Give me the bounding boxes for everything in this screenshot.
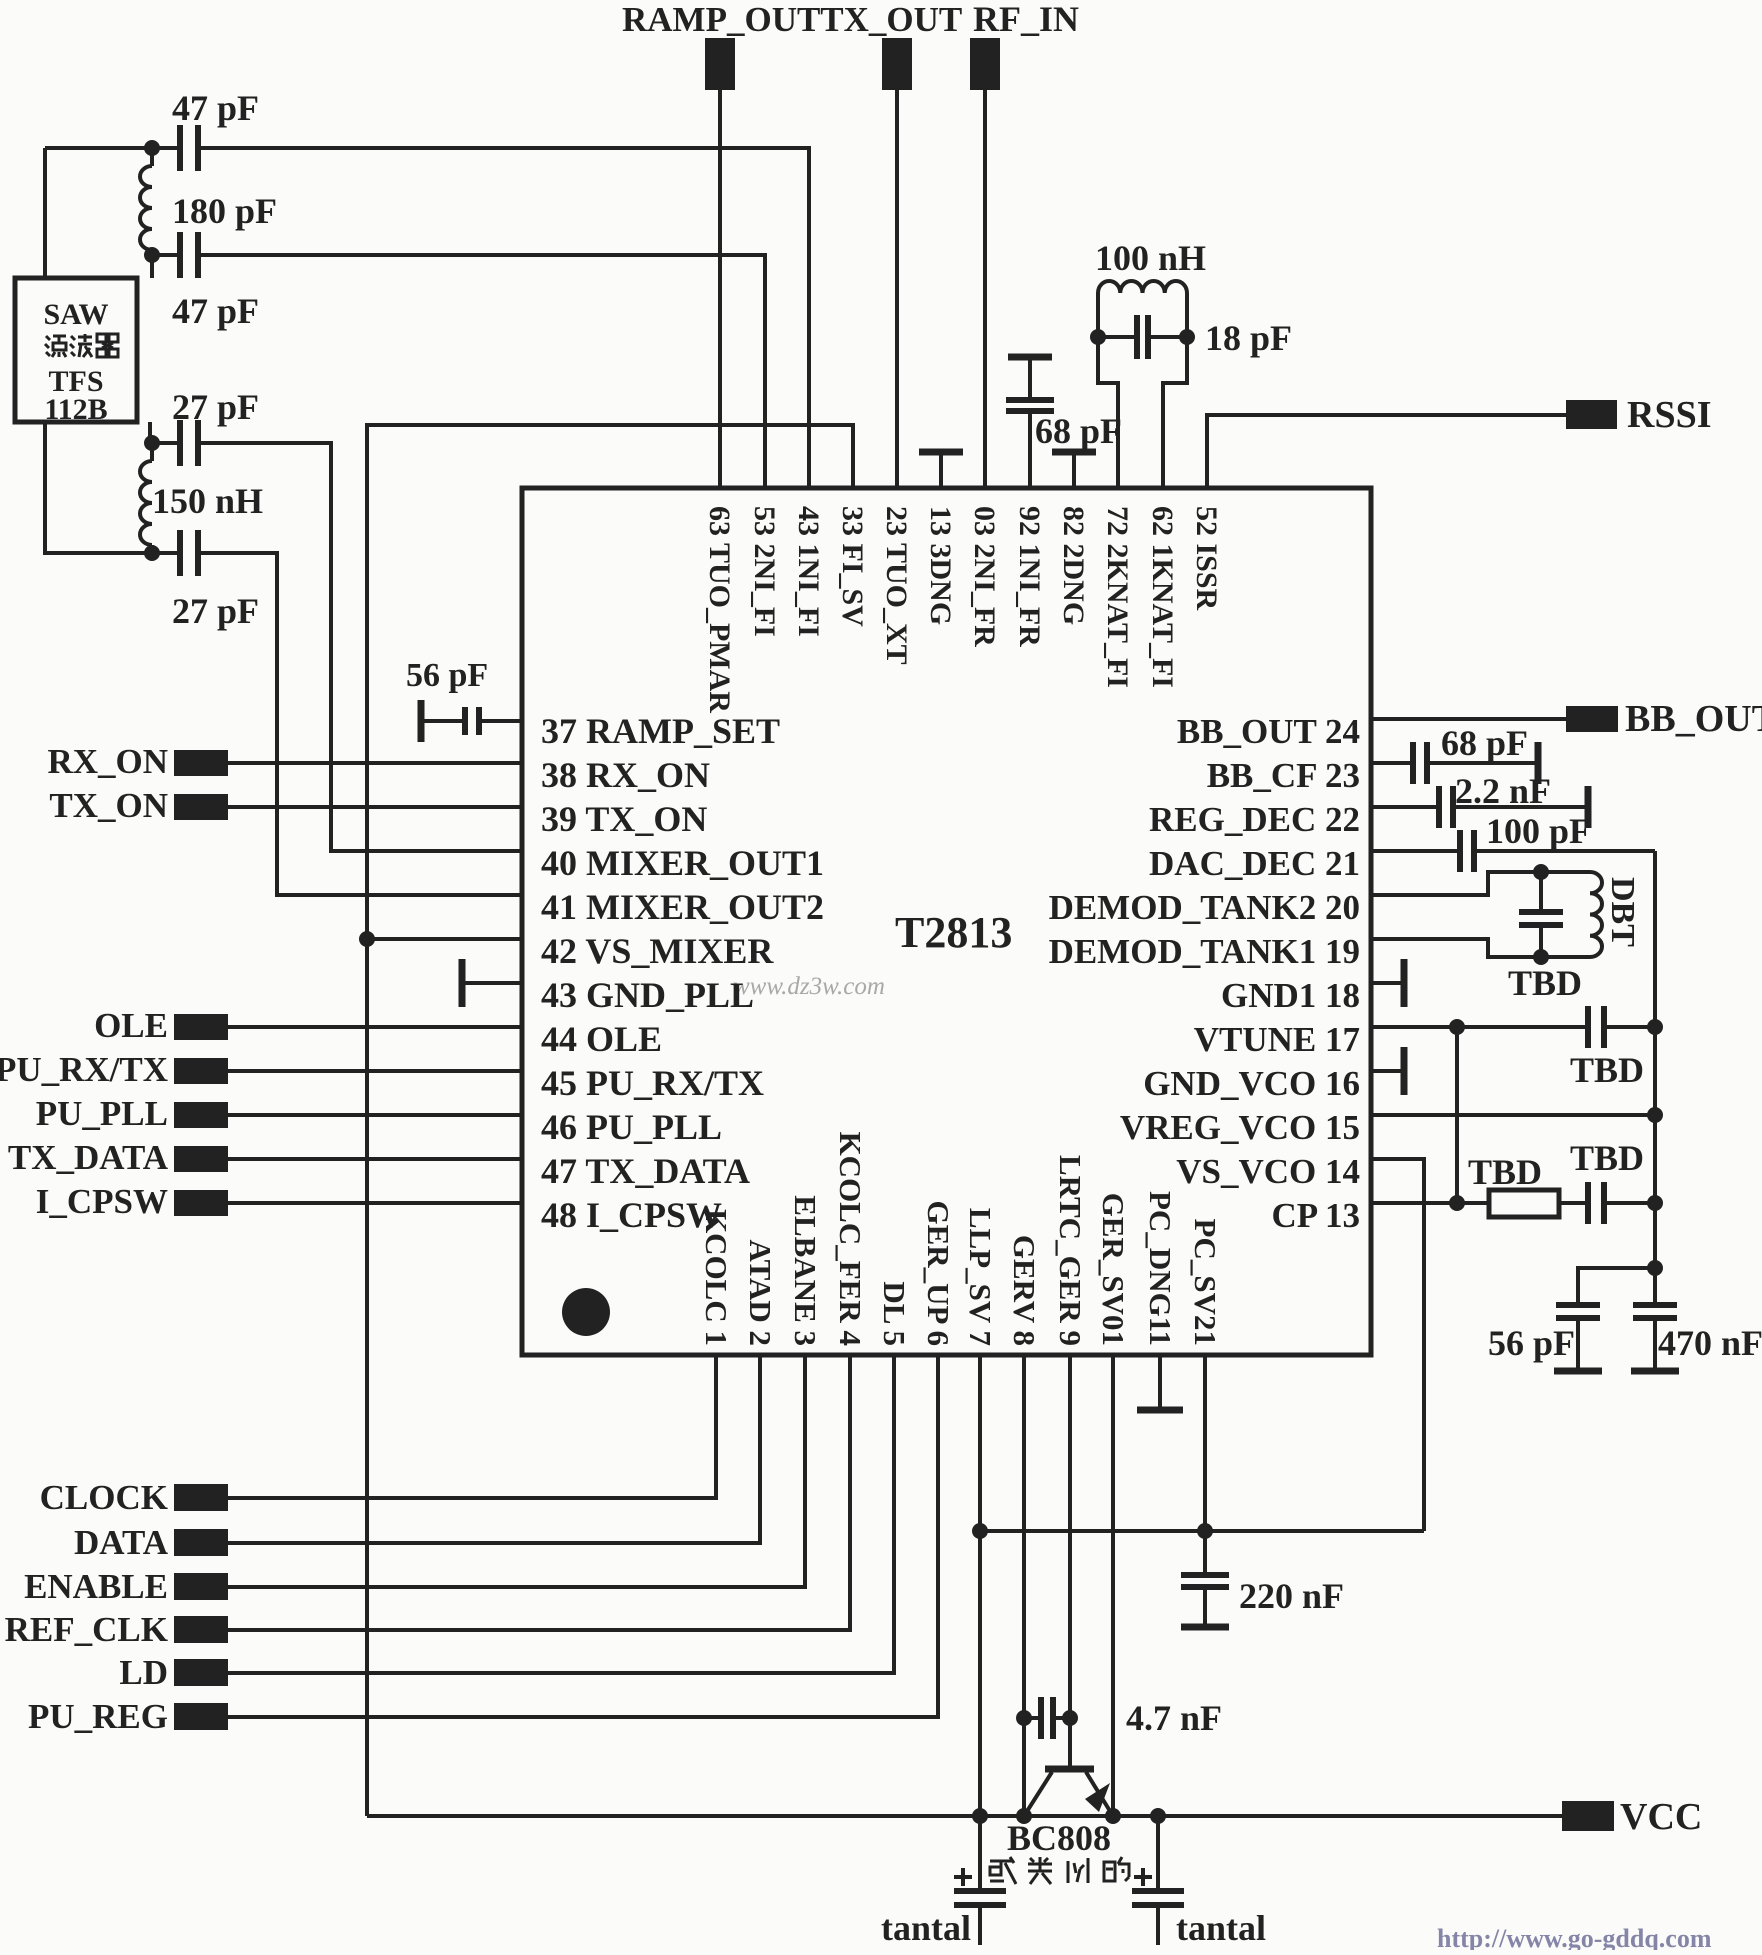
pin label 36 RAMP_OUT (top, rotated) [703, 506, 736, 713]
svg-text:46 PU_PLL: 46 PU_PLL [541, 1107, 722, 1147]
svg-text:43 1NI_FI: 43 1NI_FI [792, 506, 825, 637]
wire branch to C14 [1578, 1268, 1655, 1305]
svg-text:100 nH: 100 nH [1095, 238, 1206, 278]
wire IC pin 8 VREG down [1022, 1355, 1026, 1816]
svg-text:VS_VCO 14: VS_VCO 14 [1176, 1152, 1360, 1191]
svg-text:TBD: TBD [1570, 1138, 1644, 1178]
value label 4.7 nF (C16) [1126, 1698, 1222, 1738]
pin label VREG_VCO 15 (right) [1120, 1108, 1360, 1147]
svg-text:92 1NI_FR: 92 1NI_FR [1013, 506, 1046, 647]
svg-text:GND_VCO 16: GND_VCO 16 [1143, 1064, 1360, 1103]
svg-text:PU_RX/TX: PU_RX/TX [0, 1050, 168, 1089]
capacitor C12 TBD (plates) [1588, 1006, 1604, 1048]
svg-text:18 pF: 18 pF [1205, 318, 1292, 358]
value label 56 pF (C5) [406, 657, 488, 694]
pin label 40 MIXER_OUT1 (left) [541, 843, 824, 883]
port label CLOCK [40, 1478, 168, 1517]
value label 18 pF (C7) [1205, 318, 1292, 358]
wire DATA pad to IC pin 2 [228, 1355, 760, 1543]
ground GND_PLL pin 43 symbol [462, 959, 522, 1007]
svg-text:68 pF: 68 pF [1441, 723, 1528, 763]
svg-text:BB_OUT 24: BB_OUT 24 [1177, 712, 1360, 751]
connector pad CLOCK [174, 1484, 228, 1511]
pin label 38 RX_ON (left) [541, 755, 710, 795]
wire net VCC rail [367, 1814, 1562, 1818]
svg-text:LRTC_GER 9: LRTC_GER 9 [1053, 1155, 1088, 1346]
port label PU_RX/TX [0, 1050, 168, 1089]
port label BB_OUT [1625, 698, 1762, 740]
capacitor C3 27pF (plates) [180, 420, 198, 466]
wire tank right leg to IC pin 26 [1163, 293, 1187, 488]
svg-text:OLE: OLE [94, 1006, 168, 1045]
pin label 41 MIXER_OUT2 (left) [541, 887, 824, 927]
value label 47 pF (C2) [172, 291, 259, 331]
pin label 42 VS_MIXER (left) [541, 931, 774, 971]
value label TBD (C11) [1508, 963, 1582, 1003]
svg-text:I_CPSW: I_CPSW [36, 1182, 168, 1221]
pin label DEMOD_TANK1 19 (right) [1049, 932, 1360, 971]
svg-text:03 2NI_FR: 03 2NI_FR [968, 506, 1001, 647]
wire IC pin 24 BB_OUT to pad [1371, 717, 1566, 721]
terminal bar (56pF left end) [418, 700, 425, 742]
pin label 7 VS_PLL (bottom, rotated) [963, 1208, 998, 1346]
pin label VTUNE 17 (right) [1194, 1020, 1360, 1059]
junction dot tank right [1179, 329, 1195, 345]
connector pad REF_CLK [174, 1616, 228, 1643]
svg-text:RX_ON: RX_ON [47, 742, 168, 781]
pin label CP 13 (right) [1272, 1196, 1360, 1235]
connector pad I_CPSW [174, 1190, 228, 1216]
pin label 39 TX_ON (left) [541, 799, 707, 839]
SAW filter text TFS [48, 365, 103, 398]
connector pad PU_PLL [174, 1102, 228, 1128]
connector pad RSSI [1566, 400, 1617, 429]
pin label 9 REG_CTRL (bottom, rotated) [1053, 1155, 1088, 1346]
svg-text:http://www.go-gddq.com: http://www.go-gddq.com [1437, 1924, 1712, 1950]
wire SAW bottom-left terminal [45, 422, 152, 553]
capacitor C7 18pF (plates) [1137, 315, 1148, 359]
svg-text:GND1 18: GND1 18 [1221, 976, 1360, 1015]
value label 220 nF (C17) [1239, 1576, 1344, 1616]
svg-text:38 RX_ON: 38 RX_ON [541, 755, 710, 795]
wire IC pin 23 BB_CF via C8 [1371, 761, 1538, 765]
ground below C17 [1181, 1587, 1229, 1627]
inductor L4 TBD (coil) [1590, 872, 1602, 957]
connector pad ENABLE [174, 1573, 228, 1600]
pin label 28 GND2 (top, rotated) [1057, 506, 1090, 625]
wire IC pin 14 VS_VCO to VS net [1371, 1159, 1424, 1531]
inductor L1 180pF(coil) [140, 148, 152, 255]
capacitor C4 27pF (plates) [180, 530, 198, 576]
wire IC pin 7 VS_PLL to VCC rail [978, 1355, 982, 1816]
connector pad LD [174, 1659, 228, 1686]
svg-text:ELBANE 3: ELBANE 3 [788, 1195, 823, 1346]
pin label 46 PU_PLL (left) [541, 1107, 722, 1147]
pin label BB_CF 23 (right) [1207, 756, 1360, 795]
wire C16 link [1024, 1716, 1070, 1720]
pin label GND_VCO 16 (right) [1143, 1064, 1360, 1103]
port label PU_REG [28, 1697, 168, 1736]
wire IC pin 21 DAC_DEC via C10 to right rail [1371, 849, 1655, 853]
inductor L2 150nH (coil) [140, 443, 152, 553]
svg-text:PU_REG: PU_REG [28, 1697, 168, 1736]
svg-text:VREG_VCO 15: VREG_VCO 15 [1120, 1108, 1360, 1147]
svg-text:100 pF: 100 pF [1486, 811, 1591, 851]
svg-text:48 I_CPSW: 48 I_CPSW [541, 1195, 722, 1235]
svg-text:82 2DNG: 82 2DNG [1057, 506, 1090, 625]
pin label 4 REF_CLOCK (bottom, rotated) [833, 1132, 868, 1346]
svg-text:180 pF: 180 pF [172, 191, 277, 231]
svg-text:52 ISSR: 52 ISSR [1190, 506, 1223, 611]
pin label DEMOD_TANK2 20 (right) [1049, 888, 1360, 927]
wire IC pin 9 REG_CTRL to Q1 base [1068, 1355, 1072, 1769]
pin label 45 PU_RX/TX (left) [541, 1063, 764, 1103]
terminal bar (C9 right end) [1585, 786, 1592, 828]
IC U1 part number label T2813 [895, 908, 1012, 957]
svg-text:ATAD 2: ATAD 2 [743, 1240, 778, 1347]
pin label 8 VREG (bottom, rotated) [1007, 1235, 1042, 1346]
pin label 25 RSSI (top, rotated) [1190, 506, 1223, 611]
svg-text:27 pF: 27 pF [172, 591, 259, 631]
wire PU_PLL pad to IC [228, 1113, 522, 1117]
junction dot REG_CTRL at C16 [1062, 1710, 1078, 1726]
capacitor C2 47pF (plates) [180, 232, 198, 278]
wire net C3 to IC pin 40 MIXER_OUT1 [150, 443, 522, 851]
capacitor C19 tantal (right) [1132, 1816, 1184, 1945]
value label TBD (C12) [1570, 1050, 1644, 1090]
junction dot node A1 [144, 140, 160, 156]
value label 100 pF (C10) [1486, 811, 1591, 851]
svg-text:39 TX_ON: 39 TX_ON [541, 799, 707, 839]
connector pad BB_OUT [1566, 706, 1618, 732]
capacitor C14 56pF (plates) [1556, 1305, 1600, 1318]
port label VCC [1620, 1796, 1702, 1838]
connector pad PU_RX/TX [174, 1058, 228, 1084]
port label OLE [94, 1006, 168, 1045]
polarity plus (C19) [1134, 1868, 1152, 1886]
pin label 11GND_CP (bottom, rotated) [1143, 1191, 1178, 1346]
port label RX_ON [47, 742, 168, 781]
svg-text:GER_UP 6: GER_UP 6 [921, 1200, 956, 1346]
watermark www.dz3w.com [733, 973, 885, 1000]
svg-text:68 pF: 68 pF [1035, 411, 1122, 451]
capacitor C13 TBD (plates) [1588, 1182, 1604, 1224]
connector pad RAMP_OUT [705, 38, 735, 90]
svg-text:TX_DATA: TX_DATA [8, 1138, 169, 1177]
svg-text:PC_DNG11: PC_DNG11 [1143, 1191, 1178, 1346]
wire PU_RX/TX pad to IC [228, 1069, 522, 1073]
svg-text:TX_ON: TX_ON [49, 786, 168, 825]
ground GND1 pin 18 symbol [1371, 959, 1404, 1007]
port label PU_PLL [36, 1094, 168, 1133]
pin label 26 IF_TANK1 (top, rotated) [1146, 506, 1179, 688]
value label 68 pF (C8) [1441, 723, 1528, 763]
junction dot VTUNE left [1449, 1019, 1465, 1035]
wire REF_CLK pad to IC pin 4 [228, 1355, 850, 1630]
value label 27 pF (C4) [172, 591, 259, 631]
svg-text:RAMP_OUTTX_OUT: RAMP_OUTTX_OUT [622, 0, 962, 39]
svg-text:4.7 nF: 4.7 nF [1126, 1698, 1222, 1738]
wire IC pin 12 VS_CP down [1203, 1355, 1207, 1575]
port label ENABLE [24, 1567, 168, 1606]
junction dot VS_PLL at VS line [972, 1523, 988, 1539]
pin label 47 TX_DATA (left) [541, 1151, 750, 1191]
wire TX_OUT pad to pin 32 [895, 90, 899, 488]
pin label 12VS_CP (bottom, rotated) [1188, 1219, 1223, 1346]
junction dot node B1 [144, 435, 160, 451]
pin label 1 CLOCK (bottom, rotated) [699, 1209, 734, 1346]
svg-text:TBD: TBD [1570, 1050, 1644, 1090]
resistor R1 TBD (body) [1489, 1190, 1559, 1217]
ground GND_CP pin 11 symbol [1137, 1355, 1183, 1410]
svg-text:REF_CLK: REF_CLK [5, 1610, 168, 1649]
value label TBD (R1) [1468, 1152, 1542, 1192]
junction dot rail-branch [1647, 1260, 1663, 1276]
ground GND2 pin 28 symbol [1052, 452, 1096, 488]
pin label 34 IF_IN1 (top, rotated) [792, 506, 825, 637]
wire RX_ON pad to IC [228, 761, 522, 765]
capacitor C9 2.2nF (plates) [1439, 786, 1453, 828]
junction dot VREG at C16 [1016, 1710, 1032, 1726]
wire IC pin 25 RSSI to pad [1207, 415, 1566, 488]
wire right rail (DAC_DEC net) [1653, 851, 1657, 1305]
svg-text:REG_DEC 22: REG_DEC 22 [1149, 800, 1360, 839]
port label REF_CLK [5, 1610, 168, 1649]
value label 56 pF (C14) [1488, 1323, 1575, 1363]
connector pad TX_OUT [882, 38, 912, 90]
junction dot tantal right at rail [1150, 1808, 1166, 1824]
wire IC pin 20 DEMOD_TANK2 to tank [1371, 872, 1590, 895]
terminal bar (C8 right end) [1535, 742, 1542, 784]
value label 47 pF (C1) [172, 88, 259, 128]
junction dot VREG_VCO rail [1647, 1107, 1663, 1123]
junction dot CP rail [1647, 1195, 1663, 1211]
wire IC pin 19 DEMOD_TANK1 to tank [1371, 939, 1590, 957]
SAW filter FL1 TFS112B box [15, 278, 137, 422]
connector pad RF_IN [970, 38, 1000, 90]
svg-text:62 1KNAT_FI: 62 1KNAT_FI [1146, 506, 1179, 688]
capacitor C11 TBD (plates) [1519, 872, 1563, 957]
wire C5 to IC pin 37 RAMP_SET [421, 719, 522, 723]
junction dot tank2 top [1533, 864, 1549, 880]
junction dot VS_REG at VCC rail [1105, 1808, 1121, 1824]
pin label 43 GND_PLL (left) [541, 975, 754, 1015]
pin label 44 OLE (left) [541, 1019, 662, 1059]
value label TBD (L4, rotated) [1604, 877, 1641, 947]
svg-text:RSSI: RSSI [1627, 394, 1712, 436]
svg-text:220 nF: 220 nF [1239, 1576, 1344, 1616]
junction dot VS_PLL at VCC rail [972, 1808, 988, 1824]
svg-text:56 pF: 56 pF [1488, 1323, 1575, 1363]
pin label 27 IF_TANK2 (top, rotated) [1101, 506, 1134, 688]
svg-text:BC808: BC808 [1007, 1818, 1111, 1858]
svg-text:13 3DNG: 13 3DNG [924, 506, 957, 625]
svg-text:43 GND_PLL: 43 GND_PLL [541, 975, 754, 1015]
wire CLOCK pad to IC pin 1 [228, 1355, 716, 1498]
svg-text:PU_PLL: PU_PLL [36, 1094, 168, 1133]
svg-text:DL 5: DL 5 [877, 1281, 912, 1346]
svg-text:T2813: T2813 [895, 908, 1012, 957]
capacitor C10 100pF (plates) [1460, 830, 1474, 872]
wire TX_ON pad to IC [228, 805, 522, 809]
ground below C15 [1631, 1318, 1679, 1371]
svg-text:DEMOD_TANK1 19: DEMOD_TANK1 19 [1049, 932, 1360, 971]
ground GND3 pin 31 symbol [919, 452, 963, 488]
svg-text:PC_SV21: PC_SV21 [1188, 1219, 1223, 1346]
connector pad OLE [174, 1014, 228, 1040]
svg-text:GERV 8: GERV 8 [1007, 1235, 1042, 1346]
connector pad DATA [174, 1529, 228, 1556]
wire OLE pad to IC [228, 1025, 522, 1029]
svg-text:40 MIXER_OUT1: 40 MIXER_OUT1 [541, 843, 824, 883]
svg-text:RF_IN: RF_IN [973, 0, 1079, 39]
wire ENABLE pad to IC pin 3 [228, 1355, 805, 1587]
transistor Q1 emitter [1024, 1772, 1052, 1816]
svg-text:LD: LD [119, 1653, 168, 1692]
pin label 3 ENABLE (bottom, rotated) [788, 1195, 823, 1346]
svg-text:47 pF: 47 pF [172, 88, 259, 128]
svg-text:BB_OUT: BB_OUT [1625, 698, 1762, 740]
junction dot tank1 bottom [1533, 949, 1549, 965]
pin label 2 DATA (bottom, rotated) [743, 1240, 778, 1347]
svg-text:DAC_DEC 21: DAC_DEC 21 [1149, 844, 1360, 883]
wire IC pin 10 VS_REG down [1111, 1355, 1115, 1816]
pin label 33 VS_IF (top, rotated) [836, 506, 869, 627]
pin label 5 LD (bottom, rotated) [877, 1281, 912, 1346]
wire IC pin 22 REG_DEC via C9 [1371, 805, 1588, 809]
pin label REG_DEC 22 (right) [1149, 800, 1360, 839]
svg-text:CLOCK: CLOCK [40, 1478, 168, 1517]
inductor L3 100nH (coil) [1098, 281, 1187, 293]
pin label 10VS_REG (bottom, rotated) [1096, 1193, 1131, 1346]
value label 470 nF (C15) [1658, 1323, 1762, 1363]
svg-text:KCOLC_FER 4: KCOLC_FER 4 [833, 1132, 868, 1346]
wire tank left leg to IC pin 27 [1098, 293, 1118, 488]
junction dot node B2 [144, 545, 160, 561]
wire TX_DATA pad to IC [228, 1157, 522, 1161]
connector pad VCC [1562, 1801, 1614, 1831]
ground GND_VCO pin 16 symbol [1371, 1047, 1404, 1095]
svg-text:45 PU_RX/TX: 45 PU_RX/TX [541, 1063, 764, 1103]
transistor Q1 base bar [1045, 1766, 1094, 1773]
pin label BB_OUT 24 (right) [1177, 712, 1360, 751]
wire RF_IN pad to pin 30 [983, 90, 987, 488]
svg-text:44 OLE: 44 OLE [541, 1019, 662, 1059]
port label TX_DATA [8, 1138, 169, 1177]
svg-text:SAW: SAW [43, 298, 108, 331]
connector pad TX_DATA [174, 1146, 228, 1172]
svg-text:42 VS_MIXER: 42 VS_MIXER [541, 931, 774, 971]
port label TX_ON [49, 786, 168, 825]
wire net VS (left rail to VS_IF pin 33) [367, 425, 853, 1816]
wire net C1 to IC pin 34 [45, 148, 809, 488]
svg-text:DATA: DATA [74, 1523, 169, 1562]
wire IC pin 42 VS_MIXER stub [367, 937, 522, 941]
pin label 37 RAMP_SET (left) [541, 711, 780, 751]
value label 150 nH (L2) [152, 481, 263, 521]
pin label 32 TX_OUT (top, rotated) [880, 506, 913, 665]
wire SAW bottom-right terminal [148, 422, 152, 443]
pin label 30 RF_IN2 (top, rotated) [968, 506, 1001, 647]
pin label VS_VCO 14 (right) [1176, 1152, 1360, 1191]
capacitor C18 tantal (left) [954, 1816, 1006, 1945]
svg-text:VTUNE 17: VTUNE 17 [1194, 1020, 1360, 1059]
value label TBD (C13) [1570, 1138, 1644, 1178]
port label LD [119, 1653, 168, 1692]
connector pad PU_REG [174, 1703, 228, 1730]
capacitor C8 68pF (plates) [1413, 742, 1427, 784]
port label I_CPSW [36, 1182, 168, 1221]
value label 68 pF (C6) [1035, 411, 1122, 451]
wire IC pin 13 CP via R1 C13 to rail [1371, 1201, 1655, 1205]
capacitor C1 47pF (plates) [180, 125, 198, 171]
svg-text:ENABLE: ENABLE [24, 1567, 168, 1606]
svg-text:tantal: tantal [881, 1908, 971, 1948]
svg-text:VCC: VCC [1620, 1796, 1702, 1838]
wire LD pad to IC pin 5 [228, 1355, 894, 1673]
wire SAW top-right terminal [150, 255, 154, 278]
value label 180 pF (L1) [172, 191, 277, 231]
svg-text:112B: 112B [44, 393, 107, 426]
svg-text:53 2NI_FI: 53 2NI_FI [748, 506, 781, 637]
SAW filter text SAW [43, 298, 108, 331]
junction dot tank left [1090, 329, 1106, 345]
port label RAMP_OUT / TX_OUT (title row) [622, 0, 962, 39]
wire net VS (horizontal link) [980, 1529, 1424, 1533]
wire IC pin 17 VTUNE via C12 to rail [1371, 1025, 1655, 1029]
value label tantal (C19) [1176, 1908, 1266, 1948]
capacitor C16 4.7nF (plates) [1041, 1697, 1053, 1739]
svg-text:37 RAMP_SET: 37 RAMP_SET [541, 711, 780, 751]
svg-text:47 pF: 47 pF [172, 291, 259, 331]
svg-text:tantal: tantal [1176, 1908, 1266, 1948]
pin label 35 IF_IN2 (top, rotated) [748, 506, 781, 637]
capacitor C15 470nF (plates) [1633, 1305, 1677, 1318]
part label BC808 (Q1) [1007, 1818, 1111, 1858]
svg-text:BB_CF 23: BB_CF 23 [1207, 756, 1360, 795]
value label 100 nH (L3) [1095, 238, 1206, 278]
wire net C2 to IC pin 35 [152, 255, 765, 488]
svg-text:33 FI_SV: 33 FI_SV [836, 506, 869, 627]
junction dot CP left [1449, 1195, 1465, 1211]
svg-text:TBD: TBD [1468, 1152, 1542, 1192]
svg-text:GER_SV01: GER_SV01 [1096, 1193, 1131, 1346]
junction dot VS at VS_CP [1197, 1523, 1213, 1539]
connector pad TX_ON [174, 794, 228, 820]
junction dot node A2 [144, 247, 160, 263]
svg-text:www.dz3w.com: www.dz3w.com [733, 973, 885, 1000]
pin label 6 PU_REG (bottom, rotated) [921, 1200, 956, 1346]
junction dot VTUNE rail [1647, 1019, 1663, 1035]
port label RSSI [1627, 394, 1712, 436]
capacitor C5 56pF (plates) [465, 707, 479, 735]
svg-text:63 TUO_PMAR: 63 TUO_PMAR [703, 506, 736, 713]
junction dot VREG at VCC rail [1016, 1808, 1032, 1824]
capacitor C6 68pF (plates) [1006, 400, 1054, 411]
polarity plus (C18) [954, 1868, 972, 1886]
wire IC pin 15 VREG_VCO to rail [1371, 1113, 1655, 1117]
value label 2.2 nF (C9) [1455, 771, 1551, 811]
wire net C4 to IC pin 41 MIXER_OUT2 [152, 553, 522, 895]
svg-text:72 2KNAT_FI: 72 2KNAT_FI [1101, 506, 1134, 688]
wire tank cap link [1098, 335, 1187, 339]
value label 27 pF (C3) [172, 387, 259, 427]
pin label 29 RF_IN1 (top, rotated) [1013, 506, 1046, 647]
IC U1 pin-1 index dot [562, 1288, 610, 1336]
wire C6 to IC pin 29 RF_IN1 [1028, 357, 1032, 488]
terminal bar above C6 [1008, 354, 1052, 361]
svg-text:LLP_SV 7: LLP_SV 7 [963, 1208, 998, 1346]
